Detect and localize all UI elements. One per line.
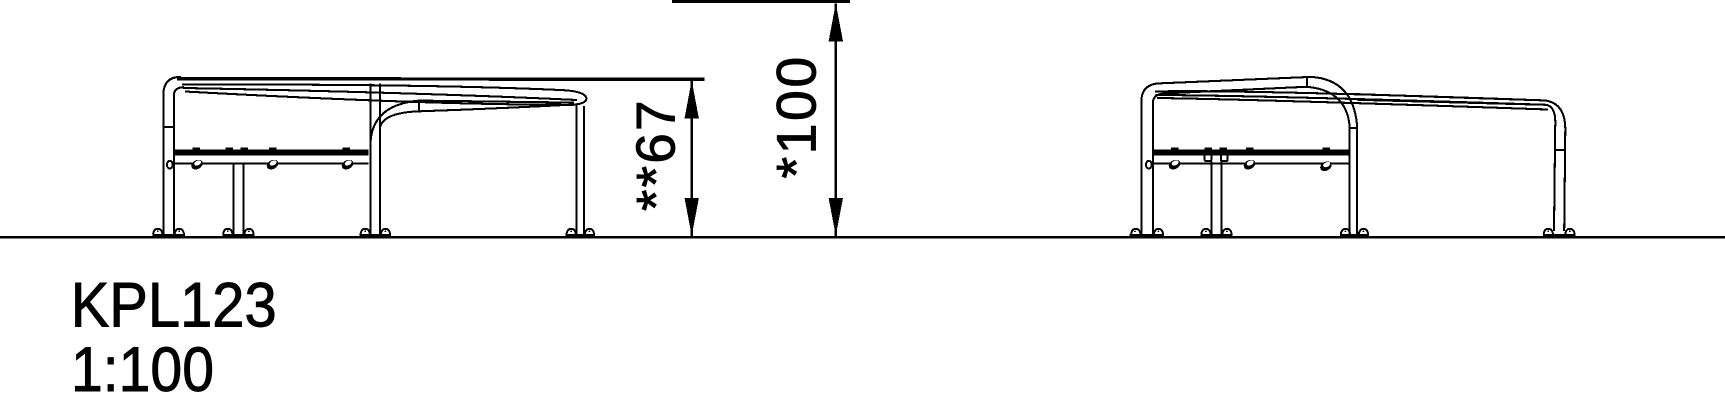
left view: middle leg feet bbox=[360, 229, 391, 236]
left view: seat clips bbox=[193, 148, 351, 151]
left view: lower rail joint tick bbox=[418, 101, 420, 112]
left view: right leg feet bbox=[566, 229, 595, 236]
right view: far-side rail upper lines bbox=[1155, 91, 1548, 109]
dimension 100: bottom arrowhead bbox=[829, 198, 843, 236]
right view: far end bend and far leg tube bbox=[1544, 100, 1565, 231]
right view: bench leg feet bbox=[1201, 229, 1233, 236]
left view: seat plank (thick bar) bbox=[174, 150, 369, 156]
dimension 100: top reference line bbox=[672, 0, 850, 3]
right view: left leg feet bbox=[1130, 229, 1165, 236]
right view: far leg feet bbox=[1543, 229, 1576, 236]
left view: table rim lower line bbox=[185, 92, 574, 105]
right view: seat support rail line bbox=[1152, 162, 1350, 164]
right view: seat hook 3 bbox=[1319, 159, 1334, 172]
left view: seat hook 2 bbox=[265, 158, 280, 171]
left view: branch tube curve to lower rail bbox=[371, 101, 420, 140]
left view: lower rail lines bbox=[419, 101, 576, 112]
left view: bench leg tube bbox=[233, 164, 243, 237]
left view: left leg tube bbox=[163, 77, 184, 236]
svg-text:*100: *100 bbox=[766, 54, 828, 178]
svg-text:KPL123: KPL123 bbox=[71, 271, 277, 341]
right view: top rail joint tick bbox=[1306, 77, 1308, 88]
right view: bench leg mounting brackets bbox=[1205, 155, 1228, 161]
right view: bench leg tube bbox=[1212, 162, 1222, 237]
right view: seat hook 1 bbox=[1167, 158, 1182, 171]
right view: seat rail end cap bbox=[1146, 161, 1152, 169]
right view: far leg joint tick bbox=[1554, 149, 1565, 151]
right view: middle leg joint tick bbox=[1349, 127, 1357, 129]
right view: top rail bend down to middle leg bbox=[1306, 77, 1357, 236]
left view: table top edge + dimension extension line bbox=[177, 77, 705, 81]
left view: seat rail end cap bbox=[167, 161, 173, 169]
svg-text:1:100: 1:100 bbox=[71, 335, 214, 394]
svg-text:**67: **67 bbox=[625, 98, 687, 211]
dimension 67: bottom arrowhead bbox=[685, 198, 699, 236]
dimension 100: vertical dimension line bbox=[834, 3, 837, 236]
ground line bbox=[0, 236, 1725, 238]
left view: seat hook 1 bbox=[190, 158, 205, 171]
left view: table rim inner line bbox=[183, 88, 577, 100]
right view: middle leg feet bbox=[1340, 229, 1369, 236]
right view: seat plank (thick bar) bbox=[1153, 150, 1349, 156]
left view: left leg weld joint tick bbox=[163, 126, 174, 128]
left view: left leg feet bbox=[152, 229, 185, 236]
left view: seat support rail line bbox=[173, 162, 369, 164]
left view: middle leg tube bbox=[371, 83, 380, 236]
left view: right leg tube bbox=[577, 104, 584, 236]
dimension 100: top arrowhead bbox=[829, 3, 843, 41]
left view: bench leg feet bbox=[222, 229, 254, 236]
right view: lower span rail lines bbox=[1352, 94, 1546, 105]
dimension 67: vertical dimension line bbox=[690, 81, 693, 236]
left view: table rim upper line bbox=[182, 84, 586, 104]
right view: seat hook 2 bbox=[1242, 158, 1257, 171]
left view: seat hook 3 bbox=[340, 158, 355, 171]
right view: seat clips bbox=[1171, 148, 1330, 151]
dimension 67: top arrowhead bbox=[685, 81, 699, 119]
right view: left leg tube bbox=[1141, 77, 1311, 236]
